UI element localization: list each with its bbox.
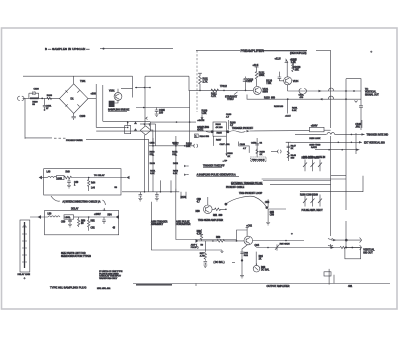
svg-text:TRIG PICKOFF LOOP: TRIG PICKOFF LOOP [239,193,263,195]
vertical from bridge D150 down [144,135,146,192]
resistor column R152 x175.9 [172,136,179,192]
left arrow into box2 [30,215,48,219]
left connector into box1 [39,176,48,180]
svg-text:DELAY LINE: DELAY LINE [18,273,31,276]
svg-text:C160: C160 [355,124,361,126]
resistor R44 vertical [88,177,96,191]
resistor R40 [64,171,75,179]
svg-text:SEMICONDUCTOR TYPES: SEMICONDUCTOR TYPES [61,255,91,258]
inductor L50 [48,213,61,217]
trimmer row 2 right [300,195,323,213]
trigger arm terminal [183,144,197,148]
resistor R109 with arrow [201,110,208,120]
wire S150 to vertical [324,129,331,131]
ground below C62 [240,260,244,278]
wire vertical x103 [102,85,104,121]
coax terminal y151 [271,150,281,153]
vertical x363 [362,176,364,192]
svg-text:R64: R64 [259,256,264,258]
wire input to bridge [39,97,60,99]
wire inside box2 [74,216,89,218]
emitter resistor column V124 [274,98,298,117]
svg-text:R65 GAIN: R65 GAIN [280,243,290,246]
svg-text:A150 TRIGGER: A150 TRIGGER [151,221,168,224]
capacitor C124 [278,72,284,81]
dc bal label [214,261,236,264]
wire right from C55 [268,209,286,217]
svg-text:EXTERNAL TRIGGER PULSE: EXTERNAL TRIGGER PULSE [231,182,263,185]
svg-text:THRU: THRU [227,98,234,101]
label T101 [74,76,86,84]
inductor L40 [47,171,57,177]
resistor R64 [256,252,263,266]
capacitor C103 below bridge [72,113,86,120]
svg-text:4S1: 4S1 [348,285,353,288]
svg-text:1.8K: 1.8K [291,61,296,64]
vertical x189.6 [189,91,191,146]
vertical x356 [355,133,357,154]
junction blobs gate wire [211,130,230,133]
right connector box1 [121,176,130,180]
svg-text:100: 100 [159,112,164,115]
long wires to right y179 [262,179,363,191]
wire vertical x145 [144,76,146,125]
test point TP112 [220,85,228,91]
svg-text:.001: .001 [355,127,360,129]
svg-text:C152: C152 [150,142,156,144]
+12.5 feed arrow top right [290,58,297,69]
wire internal trigger y240 [331,238,361,243]
wire y145.8 [149,143,195,149]
arrow into pulse gen [184,174,189,176]
see parts list note [61,252,91,258]
resistor R50 vertical [78,217,86,227]
resistor R124 label [266,80,272,86]
svg-text:Q64: Q64 [255,244,260,247]
resistor R105 dark block [109,100,118,106]
svg-text:WAVEFORM ONLY: WAVEFORM ONLY [99,277,118,280]
top rail segment right [145,75,189,77]
ground stub below C55 [266,209,270,225]
svg-text:+100V: +100V [311,126,318,128]
resistor R126 vertical [292,63,301,72]
svg-text:950: 950 [271,96,276,99]
svg-text:C100: C100 [34,89,40,91]
long vertical x346 [345,79,347,248]
emitter wire y247.5 [256,247,302,249]
svg-text:R50: R50 [81,221,86,223]
section label sampling pulse gen [197,174,239,177]
top rail wire y76 [23,75,133,77]
small bridge diamond D150 [140,124,151,135]
svg-text:1.5K: 1.5K [202,112,207,115]
transistor V124 [284,77,299,85]
output wire y240.5 [253,240,304,242]
vertical x148.7 [148,140,150,193]
loop symbol at x331 [329,88,334,91]
wire y139 probe power [25,138,149,142]
divider column x257 [251,138,266,157]
svg-text:5.6K: 5.6K [292,110,297,112]
svg-text:PULSE AMPL RECT: PULSE AMPL RECT [302,209,324,212]
svg-text:SIGNAL OUT: SIGNAL OUT [365,93,379,96]
diode D125 network top [275,58,298,77]
to vertical signal out label [365,89,379,96]
svg-text:8393: 8393 [263,91,269,94]
collector wire Q50 [207,197,209,205]
caps below bus [138,192,186,201]
svg-text:( DC BAL ): ( DC BAL ) [214,261,225,264]
svg-text:+12.5: +12.5 [275,58,282,61]
line box 2 [64,215,74,219]
transistor Q50 [204,205,213,214]
svg-text:R58: R58 [216,237,221,239]
capacitor C54 [102,217,116,230]
section boundary dashed x197 [196,50,198,112]
svg-text:+12.5: +12.5 [285,116,291,118]
svg-text:→TP: →TP [222,161,228,163]
vertical x155 down [155,124,157,146]
wire stub y87.5 [135,87,151,89]
svg-text:4X 100: 4X 100 [216,127,224,129]
svg-text:+C62: +C62 [246,226,252,228]
svg-text:A152 PULSE: A152 PULSE [176,221,190,224]
trigger cable box [251,157,267,162]
svg-text:R168 C169 R169: R168 C169 R169 [300,195,318,197]
resistor R57 to ground [200,241,208,268]
capacitor C113 [244,77,254,92]
svg-text:R63: R63 [261,267,266,269]
svg-text:+: + [291,232,293,236]
wire inside box1 [75,177,121,179]
trimmer row 1 right [302,158,323,172]
right connector box2 [88,215,119,219]
assembly labels [151,221,191,227]
line box LINE 50ohm [57,176,65,180]
svg-text:B — SAMPLES IN UPSCAN —: B — SAMPLES IN UPSCAN — [45,47,89,51]
svg-text:A( INTERCONNECTING CABLES )A: A( INTERCONNECTING CABLES )A [63,200,101,203]
verticals down to assemblies [151,189,175,226]
transistor V101 [109,90,122,101]
left jog wire [150,122,153,146]
wire y121.3 [103,120,151,122]
wire y142.3 ext vertical [286,141,385,144]
svg-text:LINE: LINE [65,217,70,219]
wire y127.4 [96,126,127,128]
resistor R103 [47,95,53,100]
labels C140 [226,114,232,119]
sampling gate label [197,119,211,132]
verticals below gate box [213,136,230,156]
svg-text:CONVERTER: CONVERTER [176,224,191,226]
svg-text:+12.5: +12.5 [253,65,260,67]
resistor R58 [213,237,244,242]
sampling bridge diamond D101 [60,84,89,114]
svg-text:EXT VERTICAL SIG: EXT VERTICAL SIG [364,142,385,145]
sampling bridge label [108,109,130,112]
svg-text:R54: R54 [108,215,113,217]
wire y149.7 gate [303,149,359,159]
svg-text:C56: C56 [270,215,275,217]
capacitor C131 label [299,94,305,99]
cross mark top right [370,51,372,53]
short verticals x160 x171 [160,180,171,191]
svg-text:4.7K: 4.7K [211,95,216,98]
labels around Q50 [196,199,224,222]
svg-text:DELAYED + GATE IN: DELAYED + GATE IN [303,156,326,159]
svg-text:C168: C168 [240,144,246,146]
svg-text:TO: TO [365,89,368,91]
svg-text:SIG OUT: SIG OUT [363,252,373,254]
svg-text:R51: R51 [213,215,218,217]
box below sig out wire [345,248,361,259]
svg-text:R164 950: R164 950 [200,136,210,138]
svg-text:V124: V124 [293,80,299,83]
svg-text:TRIG SENS AMPLIFIER: TRIG SENS AMPLIFIER [198,219,223,222]
svg-text:V101: V101 [109,90,115,93]
main wire y90.4 [189,89,253,91]
trigger selector box S150 [309,126,324,150]
resistor R121 vertical above V121 [253,65,266,86]
heavy rule bottom [136,284,172,286]
arrow glyph left of gate wire [146,117,148,120]
gate resistor box R166 [213,122,226,136]
svg-text:MRL MRL-101: MRL MRL-101 [97,288,111,290]
svg-text:AMP (: AMP ( [191,244,197,247]
input dropper vertical x25 [24,98,26,138]
potentiometer R63 [253,263,270,272]
transistor Q64 [244,226,260,247]
capacitor C40 to ground [67,178,79,188]
input connector J100 [18,96,30,100]
svg-text:7.5K: 7.5K [266,82,271,85]
arrow on wire y91 [319,90,322,92]
straight thru label [225,92,238,101]
svg-text:VERTICAL: VERTICAL [363,249,375,252]
svg-text:TRIGGER RATE IND: TRIGGER RATE IND [367,134,389,137]
wire y107.5 with C105 [136,107,190,117]
bracket wire to vertical signal out [346,79,361,91]
svg-text:8.2K: 8.2K [173,173,178,175]
svg-text:C153: C153 [172,142,178,144]
section label output amplifier [267,285,290,288]
wire y175.7 right [331,175,346,177]
svg-text:R44: R44 [91,183,96,185]
collector feed wire [236,227,249,241]
svg-text:C114: C114 [246,80,252,83]
bracket wire C168 [239,142,250,153]
svg-text:R156 100K: R156 100K [309,138,320,140]
bus wire y192 [122,191,179,193]
labels top right C160 [355,120,362,129]
capacitor C101 drop [43,98,52,111]
reference note block [99,271,123,280]
svg-text:C50: C50 [197,199,202,201]
svg-text:R123: R123 [264,96,270,99]
svg-text:PICKOFF CABLE: PICKOFF CABLE [226,186,245,189]
svg-text:PROBE POWER: PROBE POWER [66,140,83,142]
node B samples label line [45,47,173,51]
svg-text:TP112: TP112 [220,85,228,88]
wire bridge to node [88,98,96,100]
svg-text:C52: C52 [91,228,96,230]
input arrow output stage [196,239,214,246]
wire vertical x189 top [188,76,190,91]
svg-text:C103: C103 [80,115,86,118]
emitter wire V124 down [287,85,289,91]
svg-text:VERTICAL: VERTICAL [365,91,377,94]
wire vertical sig out y247.5 [302,245,375,254]
test point box TP164 [195,134,210,138]
gain trimmer R65 [275,243,290,251]
divider column x288 [286,142,297,161]
svg-text:2.7K: 2.7K [203,81,208,84]
emitter network C62 column [240,245,248,262]
svg-text:R167: R167 [216,140,222,142]
svg-text:R156: R156 [181,197,187,199]
svg-text:C150: C150 [251,143,257,145]
preamplifier section line [196,49,331,55]
svg-text:C55: C55 [265,202,270,204]
switch marks on x330 vertical [328,239,333,246]
capacitor C133 on vertical x361 [355,91,364,130]
resistor R112 [211,89,219,98]
svg-text:4.7K: 4.7K [200,256,205,258]
svg-text:+300: +300 [91,93,97,96]
wire y131 trigger pickoff [96,120,309,132]
resistor R111 vertical [198,73,209,91]
svg-text:C167 .001: C167 .001 [220,144,231,146]
svg-text:C40: C40 [74,182,79,184]
svg-text:R40: R40 [66,171,71,173]
wire collector V101 to x132 [118,89,133,93]
wire y99 lower [247,95,361,101]
svg-text:OUTPUT AMPLIFIER: OUTPUT AMPLIFIER [267,285,290,288]
svg-text:RATE: RATE [311,146,317,149]
svg-text:R50: R50 [196,211,201,213]
output wire y91 to right [288,90,362,92]
transistor V121 [253,86,268,94]
svg-text:R103: R103 [47,95,53,97]
trigger pickoff loop curve [225,186,267,207]
transformer T140 cluster [125,121,137,133]
section label ext trigger [231,182,263,185]
svg-text:D152: D152 [173,163,179,165]
junction dot input [41,98,43,100]
L wire right bottom [324,269,334,285]
capacitor C114 [243,80,253,83]
svg-text:LINE: LINE [57,178,62,180]
svg-text:10K: 10K [186,145,191,148]
svg-text:TO DELAY: TO DELAY [94,174,105,177]
svg-text:R52: R52 [91,221,96,223]
interconnecting cables squiggle [51,196,105,210]
svg-text:TYPE 661 SAMPLING PLUG: TYPE 661 SAMPLING PLUG [50,286,86,290]
svg-text:+100V: +100V [94,214,101,216]
svg-text:C50: C50 [61,222,66,224]
svg-text:DC BAL: DC BAL [261,269,270,272]
resistor column R150 x153 [150,138,157,192]
emitter resistor R51 [212,208,227,217]
svg-text:+GATE: +GATE [197,119,205,122]
arrow into trigger takeoff [184,165,189,167]
svg-text:SAMPLING: SAMPLING [197,126,209,129]
wire vertical x96 [95,84,97,127]
pulse gen box outline bottom [151,226,236,251]
svg-text:8.2K: 8.2K [150,173,155,175]
svg-text:R165: R165 [217,132,223,134]
svg-text:PREAMPLIFIER: PREAMPLIFIER [241,49,265,53]
svg-text:R55: R55 [270,212,275,214]
svg-text:ASSEMBLY: ASSEMBLY [151,223,164,226]
svg-text:DELAY: DELAY [71,207,79,210]
delay line column assembly [18,220,31,279]
resistor R100 [30,97,39,105]
labels R168 TP [222,153,233,162]
junction dots wire y91 [345,90,355,92]
svg-text:TRIGGER PICKOFF: TRIGGER PICKOFF [232,128,254,130]
capacitor C50 [61,217,72,227]
delay line box 1 [44,169,121,195]
capacitor C55 [265,199,270,209]
resistor R52 vertical [88,216,96,231]
bottom long wire y283.5 [133,284,390,287]
svg-text:(DECOUPLED): (DECOUPLED) [290,52,307,55]
svg-text:TRIG CABLE: TRIG CABLE [252,158,266,161]
svg-text:PROP ): PROP ) [191,247,199,249]
svg-text:D150: D150 [150,163,156,165]
wire vertical x132 [132,76,134,97]
long vertical x330.6 [330,50,332,248]
svg-text:T101: T101 [80,80,86,83]
svg-text:100K: 100K [259,74,265,77]
coax connector marks [299,89,307,94]
delay line box 2 [45,207,119,235]
svg-text:1K: 1K [259,259,262,261]
wire y122 [150,121,196,123]
capacitor C100 parallel branch [29,89,40,99]
svg-text:A SAMPLING PULSE GENERATOR A: A SAMPLING PULSE GENERATOR A [197,174,237,177]
section label trigger takeoff [203,165,225,168]
wire y134.4 trigger rate [295,133,388,137]
svg-text:16K: 16K [295,69,300,72]
resistor R56 upper [197,229,203,241]
ground tick on y250 wire [220,250,223,253]
bridge trigger wire y124 [140,123,156,125]
